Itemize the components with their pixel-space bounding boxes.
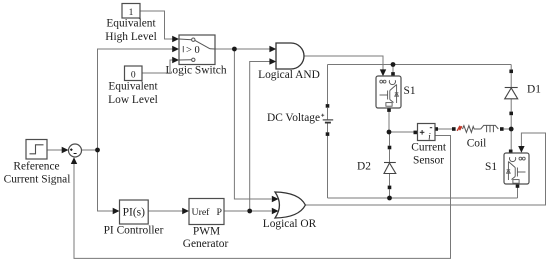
svg-text:Logic Switch: Logic Switch bbox=[165, 64, 226, 76]
svg-text:PI Controller: PI Controller bbox=[104, 225, 164, 237]
svg-text:PWM: PWM bbox=[193, 225, 220, 237]
svg-text:P: P bbox=[217, 207, 223, 218]
svg-text:Current: Current bbox=[411, 141, 447, 153]
svg-text:High Level: High Level bbox=[105, 31, 157, 43]
svg-text:PI(s): PI(s) bbox=[123, 207, 146, 219]
svg-text:Logical OR: Logical OR bbox=[263, 218, 317, 230]
svg-text:> 0: > 0 bbox=[186, 45, 200, 56]
svg-text:Current Signal: Current Signal bbox=[4, 174, 71, 186]
svg-text:Coil: Coil bbox=[467, 138, 487, 150]
svg-text:Uref: Uref bbox=[192, 207, 211, 218]
svg-text:Equivalent: Equivalent bbox=[106, 18, 156, 30]
svg-text:Generator: Generator bbox=[183, 238, 229, 250]
svg-text:D2: D2 bbox=[357, 161, 371, 173]
svg-text:D1: D1 bbox=[527, 83, 541, 95]
svg-text:S1: S1 bbox=[403, 85, 415, 97]
svg-text:Sensor: Sensor bbox=[413, 154, 444, 166]
svg-text:Equivalent: Equivalent bbox=[108, 80, 158, 92]
svg-text:1: 1 bbox=[129, 8, 134, 18]
svg-text:Low Level: Low Level bbox=[108, 94, 158, 106]
svg-text:Logical AND: Logical AND bbox=[258, 69, 320, 81]
svg-text:DC Voltage: DC Voltage bbox=[267, 112, 320, 124]
svg-text:0: 0 bbox=[131, 71, 136, 81]
svg-text:S1: S1 bbox=[485, 161, 497, 173]
svg-text:Reference: Reference bbox=[13, 160, 59, 172]
